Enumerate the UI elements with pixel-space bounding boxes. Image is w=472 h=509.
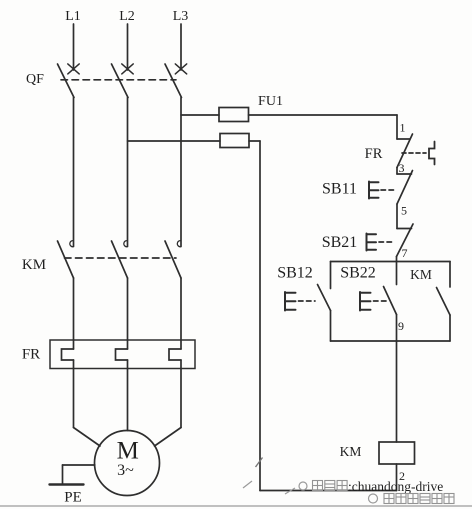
svg-text:FR: FR [22, 347, 40, 363]
svg-text:3~: 3~ [117, 462, 134, 479]
svg-text:SB11: SB11 [322, 181, 357, 198]
svg-text::chuandong-drive: :chuandong-drive [348, 479, 443, 494]
svg-text:M: M [117, 438, 139, 465]
svg-text:KM: KM [340, 444, 362, 459]
svg-text:SB21: SB21 [322, 234, 358, 251]
svg-text:1: 1 [400, 121, 406, 135]
svg-text:9: 9 [398, 319, 404, 333]
svg-text:FR: FR [365, 146, 383, 162]
svg-text:FU1: FU1 [258, 94, 283, 109]
svg-text:KM: KM [22, 257, 46, 273]
svg-text:L3: L3 [173, 9, 189, 24]
svg-text:5: 5 [401, 204, 407, 218]
svg-text:L1: L1 [65, 9, 81, 24]
svg-text:KM: KM [410, 267, 432, 282]
svg-text:QF: QF [26, 72, 44, 87]
svg-text:3: 3 [399, 161, 405, 175]
svg-text:7: 7 [402, 246, 408, 260]
svg-text:PE: PE [64, 490, 82, 506]
svg-text:SB22: SB22 [340, 265, 376, 282]
svg-text:L2: L2 [119, 9, 135, 24]
svg-text:SB12: SB12 [277, 265, 313, 282]
